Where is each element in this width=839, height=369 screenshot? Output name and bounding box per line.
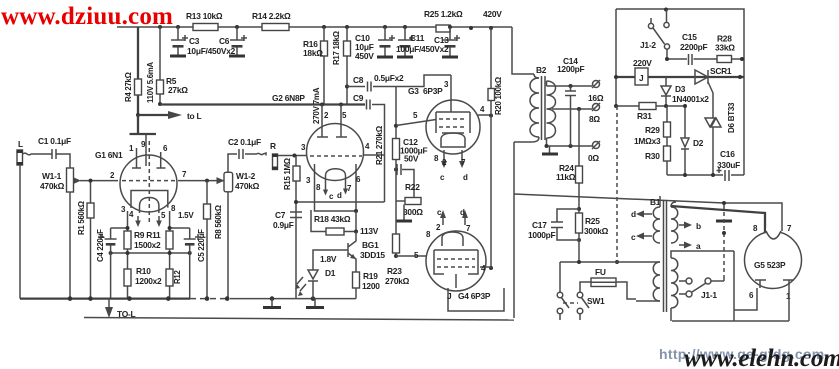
svg-text:d: d [463,173,468,182]
svg-text:0Ω: 0Ω [588,153,599,163]
svg-text:8Ω: 8Ω [589,114,600,124]
svg-text:1200pF: 1200pF [557,64,584,74]
svg-text:27kΩ: 27kΩ [168,85,188,95]
svg-text:470kΩ: 470kΩ [40,181,65,191]
svg-text:3DD15: 3DD15 [360,250,385,260]
svg-text:G5 523P: G5 523P [754,260,786,270]
svg-text:33kΩ: 33kΩ [715,43,735,53]
svg-text:0.5μFx2: 0.5μFx2 [374,73,404,83]
svg-text:BG1: BG1 [362,240,379,250]
svg-text:D6 BT33: D6 BT33 [727,102,736,133]
svg-text:SCR1: SCR1 [710,66,732,76]
svg-text:11kΩ: 11kΩ [556,172,576,182]
svg-text:R29: R29 [645,125,660,135]
svg-text:1.5V: 1.5V [178,211,194,220]
svg-text:FU: FU [595,267,606,277]
svg-text:50V: 50V [404,154,419,164]
svg-text:R10: R10 [136,266,151,276]
svg-text:R1 560kΩ: R1 560kΩ [77,201,86,235]
svg-text:R: R [270,141,276,151]
svg-text:C3: C3 [189,36,200,46]
svg-text:to L: to L [187,111,201,121]
svg-text:B1: B1 [650,197,661,207]
svg-text:270V 7mA: 270V 7mA [312,87,321,124]
svg-text:L: L [18,139,23,149]
svg-text:C8: C8 [353,75,364,85]
svg-text:R20 100kΩ: R20 100kΩ [494,77,503,115]
svg-text:R25: R25 [585,216,600,226]
svg-text:2200pF: 2200pF [680,42,707,52]
svg-text:330uF: 330uF [717,160,740,170]
svg-text:d: d [631,209,636,219]
svg-text:C16: C16 [720,149,735,159]
svg-text:G1 6N1: G1 6N1 [95,150,123,160]
svg-text:1MΩx3: 1MΩx3 [634,136,661,146]
svg-text:100μF/450Vx2: 100μF/450Vx2 [396,44,449,54]
svg-text:113V: 113V [360,226,379,236]
svg-text:R19: R19 [363,271,378,281]
svg-text:R12: R12 [173,270,182,284]
svg-text:D3: D3 [675,84,686,94]
svg-text:J: J [639,73,644,83]
svg-text:a: a [696,241,701,251]
svg-text:R23: R23 [387,266,402,276]
svg-text:1500x2: 1500x2 [134,240,161,250]
svg-text:470kΩ: 470kΩ [235,181,260,191]
svg-text:0.9μF: 0.9μF [273,220,294,230]
svg-text:16Ω: 16Ω [588,93,604,103]
svg-text:c: c [631,232,636,242]
svg-text:R8 560kΩ: R8 560kΩ [214,205,223,239]
svg-text:220V: 220V [633,58,652,68]
svg-text:J1-1: J1-1 [701,290,717,300]
svg-text:R30: R30 [645,151,660,161]
svg-text:b: b [696,221,701,231]
svg-text:R14 2.2kΩ: R14 2.2kΩ [252,11,291,21]
svg-text:J1-2: J1-2 [640,40,656,50]
svg-text:W1-2: W1-2 [236,171,256,181]
svg-text:www.dziuu.com: www.dziuu.com [1,3,173,30]
svg-text:R31: R31 [637,111,652,121]
svg-text:110V 5.6mA: 110V 5.6mA [146,62,155,103]
svg-text:R21 270kΩ: R21 270kΩ [375,125,384,165]
svg-text:18kΩ: 18kΩ [303,48,323,58]
svg-text:300Ω: 300Ω [403,207,423,217]
svg-text:450V: 450V [355,51,374,61]
svg-text:270kΩ: 270kΩ [385,276,410,286]
svg-text:SW1: SW1 [587,296,605,306]
svg-text:d: d [460,208,465,217]
svg-text:300kΩ: 300kΩ [584,226,609,236]
svg-text:C11: C11 [410,33,425,43]
svg-text:C1 0.1μF: C1 0.1μF [38,136,71,146]
svg-text:J: J [447,291,452,301]
svg-text:R25 1.2kΩ: R25 1.2kΩ [424,9,463,19]
svg-text:W1-1: W1-1 [42,171,62,181]
svg-text:6P3P: 6P3P [423,86,443,96]
svg-text:420V: 420V [483,9,502,19]
svg-text:C2 0.1μF: C2 0.1μF [228,137,261,147]
svg-text:D1: D1 [325,268,336,278]
svg-text:R4 27kΩ: R4 27kΩ [124,72,133,102]
svg-text:G2 6N8P: G2 6N8P [272,93,305,103]
svg-text:1200: 1200 [362,281,380,291]
svg-text:B2: B2 [536,65,547,75]
svg-text:C9: C9 [353,93,364,103]
svg-text:C15: C15 [682,32,697,42]
svg-text:R13 10kΩ: R13 10kΩ [186,11,223,21]
svg-text:C5 220μF: C5 220μF [197,229,206,262]
svg-text:1000pF: 1000pF [528,230,555,240]
svg-text:1200x2: 1200x2 [135,276,162,286]
svg-text:C6: C6 [219,36,230,46]
svg-text:R17 18kΩ: R17 18kΩ [332,31,341,65]
svg-text:10μF/450Vx2: 10μF/450Vx2 [187,46,236,56]
svg-text:D2: D2 [693,138,704,148]
svg-text:R9 R11: R9 R11 [134,230,161,240]
svg-text:R15 1MΩ: R15 1MΩ [283,158,292,190]
svg-text:d: d [337,191,342,200]
svg-text:R18 43kΩ: R18 43kΩ [314,214,351,224]
svg-text:1N4001x2: 1N4001x2 [672,94,709,104]
svg-text:www.elehn.com: www.elehn.com [684,345,839,369]
svg-text:C7: C7 [275,210,286,220]
svg-text:G3: G3 [408,86,419,96]
svg-text:R22: R22 [405,182,420,192]
svg-text:C17: C17 [532,220,547,230]
svg-text:G4 6P3P: G4 6P3P [458,291,491,301]
svg-text:1.8V: 1.8V [320,254,337,264]
svg-text:C4 220μF: C4 220μF [96,229,105,262]
